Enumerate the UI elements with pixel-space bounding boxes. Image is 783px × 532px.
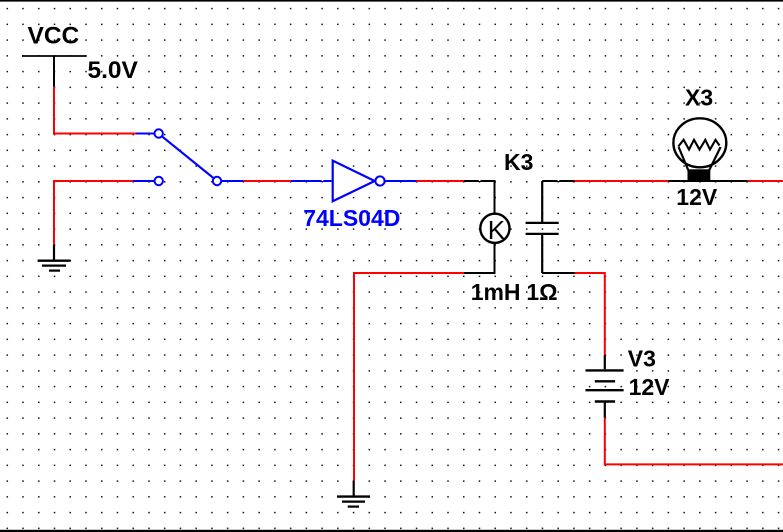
svg-text:12V: 12V (676, 184, 718, 210)
svg-text:K: K (488, 215, 506, 245)
wire contact bottom (black) (542, 272, 575, 274)
wire into coil (black) (464, 181, 495, 214)
svg-text:VCC: VCC (28, 22, 80, 49)
wire to relay coil (red) (417, 180, 465, 182)
svg-text:K3: K3 (504, 149, 533, 175)
svg-text:1mH: 1mH (471, 279, 521, 305)
svg-text:5.0V: 5.0V (88, 57, 139, 84)
wire ground to switch (red) (54, 181, 133, 245)
pin gap notch at inverter input (322, 180, 324, 181)
wire coil bottom (black) (464, 243, 495, 273)
pin gap notch at coil pin (479, 180, 481, 181)
svg-text:1Ω: 1Ω (526, 279, 557, 305)
wire switch to inverter (red middle) (244, 180, 291, 182)
wire inverter input (blue) (291, 180, 332, 182)
battery V3 (586, 355, 624, 418)
top window border (0, 0, 783, 2)
ground (left) (38, 245, 71, 271)
pin gap notch at contact pin (558, 180, 560, 181)
inverter U1 74LS04D (333, 161, 385, 202)
relay coil K3 (480, 214, 509, 245)
svg-text:74LS04D: 74LS04D (303, 205, 400, 231)
wire contact top (black) (542, 180, 574, 182)
power VCC (22, 22, 87, 86)
lamp X3 (673, 118, 726, 180)
wire contact bottom to battery (red) (575, 273, 605, 355)
svg-text:X3: X3 (685, 84, 713, 110)
relay contact K3 (526, 181, 559, 273)
svg-text:12V: 12V (629, 374, 671, 400)
wire lamp to right edge (red) (748, 180, 783, 182)
bottom window border (0, 530, 783, 532)
switch S1 (133, 129, 244, 185)
wire VCC to switch (red) (54, 87, 136, 134)
wire contact top to lamp (red) (575, 180, 669, 182)
wire battery to right edge (red) (605, 418, 783, 465)
wire lamp row (black) (668, 180, 748, 182)
svg-text:V3: V3 (628, 346, 656, 372)
wire inverter output (blue) (386, 180, 417, 182)
ground (middle) (337, 481, 370, 507)
wire coil bottom to ground (red) (354, 273, 464, 481)
